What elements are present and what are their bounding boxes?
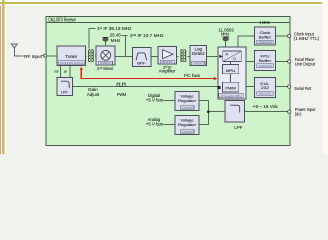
log detector U3 [190,45,207,65]
A/D converter [223,51,242,61]
wire power input [244,111,288,113]
PWM square wave symbol [117,83,125,86]
svg-text:D: D [233,57,236,61]
svg-text:+9 – 15 Vdc: +9 – 15 Vdc [253,104,279,109]
svg-text:BPF: BPF [137,61,146,66]
wire crystal X1 to mixer [104,41,106,46]
svg-text:PWM: PWM [225,86,236,91]
svg-text:I²C bus: I²C bus [184,73,201,78]
svg-text:MHz: MHz [111,38,121,43]
antenna [12,44,24,56]
svg-text:Regulator: Regulator [178,98,197,103]
wire tuner to transformer [86,55,87,57]
svg-text:Buffer: Buffer [259,34,272,39]
svg-text:+5 V bus: +5 V bus [146,98,164,103]
wire power node to LPF [208,111,225,113]
svg-text:1st IF 36.13 MHz: 1st IF 36.13 MHz [97,26,132,31]
svg-text:RF: RF [54,70,59,74]
terminal power input [288,110,291,113]
amplifier 2nd IF [158,46,176,64]
svg-text:MHz: MHz [221,32,229,37]
wire crystal X2 to MPU box [225,41,227,47]
PWM unit [223,82,239,92]
svg-text:AD8307: AD8307 [193,62,204,66]
svg-text:Gain: Gain [88,87,99,92]
wire MPU to PWM [230,74,232,83]
wire log detector to A/D (arrow) [207,55,220,57]
arrowhead I2C to tuner [80,67,83,70]
terminal RF input [44,54,47,57]
part number ATmega16 [219,93,243,98]
green panel CALLISTO Receiver [46,16,290,145]
svg-text:MPU: MPU [226,68,236,73]
wire PWM gain adjust to LPF [73,85,218,87]
FPU buffer [255,51,276,71]
wire MPU to EIA-232 [246,86,255,88]
svg-text:CALLISTO Receiver: CALLISTO Receiver [48,17,76,23]
panel title separator [46,22,290,24]
svg-text:232: 232 [261,85,270,90]
clock buffer [255,27,276,45]
LPF power input filter [225,100,244,122]
I2C bus red line [81,69,215,79]
wire mixer to BPF [115,55,132,57]
svg-text:Amplifier: Amplifier [159,69,176,74]
svg-text:Serial Port: Serial Port [294,86,312,91]
svg-text:74HC244: 74HC244 [258,64,272,68]
wire clock buffer output [276,35,289,37]
wire tuner RF AGC stub [60,66,62,78]
svg-text:PWM: PWM [117,92,127,97]
svg-text:(dc): (dc) [295,111,302,116]
leader line 1st IF label [89,29,96,49]
tuner block [57,46,86,65]
wire amplifier to transformer T2 [176,55,178,57]
svg-text:ATmega16 MPU: ATmega16 MPU [220,94,241,98]
wire regulators to power node (elbows) [199,100,208,124]
wire EIA-232 output [276,86,289,88]
svg-text:+5 V bus: +5 V bus [146,122,164,127]
node power junction [207,110,210,113]
wire tuner IF AGC stub [69,66,71,78]
mixer U2 [96,46,115,65]
svg-text:SA602A: SA602A [100,61,111,65]
svg-text:25.43: 25.43 [110,33,121,38]
svg-text:Regulator: Regulator [178,122,197,127]
svg-text:Unit Output: Unit Output [295,62,316,67]
terminal FPU output [288,60,291,63]
svg-text:Tuner: Tuner [65,54,78,59]
svg-text:MAX232: MAX232 [259,92,271,96]
wire A/D to MPU [230,62,232,65]
svg-text:BF199: BF199 [162,60,172,64]
node PWM output square [217,86,220,89]
svg-text:LPF: LPF [61,90,69,95]
crystal X2 11.0592 MHz [218,27,234,40]
svg-text:74HC244: 74HC244 [258,40,272,44]
arrowhead I2C to MPU [214,77,218,80]
wire digital bus to regulator U4 [164,99,175,101]
svg-text:Adjust: Adjust [87,92,100,97]
voltage regulator digital [175,92,199,111]
wire transformer T2 to log detector [187,55,190,57]
svg-text:Buffer: Buffer [259,58,272,63]
svg-text:(1 MHz TTL): (1 MHz TTL) [294,36,320,41]
wire transformer to mixer [95,55,96,57]
transformer T1 [88,49,93,62]
LPF gain adjust [57,78,72,96]
svg-text:LM7805: LM7805 [182,106,193,110]
wire RF input to tuner [47,55,57,57]
transformer T2 [181,49,186,62]
terminal clock output [288,34,291,37]
MPU group box ATmega16 [218,47,246,99]
wire analog bus to regulator U5 [164,123,175,125]
svg-text:CD1316LS/IV-3: CD1316LS/IV-3 [60,61,83,65]
wire RF input stub [42,55,44,57]
svg-text:LM7805: LM7805 [182,130,193,134]
svg-text:1 MHz: 1 MHz [259,20,269,25]
wire MPU to FPU buffer [246,61,255,63]
EIA-232 driver [255,78,276,98]
voltage regulator analog [175,116,199,135]
wire MPU to clock buffer (elbow) [238,36,255,47]
terminal serial port [288,85,291,88]
svg-text:RF Input: RF Input [24,54,43,59]
crystal X1 25.43 MHz [103,38,109,42]
svg-text:Detect: Detect [192,51,205,56]
MPU core [223,65,239,74]
BPF filter block [132,48,151,67]
arrowhead log detect to A/D [219,55,222,58]
svg-text:LPF: LPF [234,125,242,130]
leader line 2nd IF label [122,34,128,36]
wire FPU buffer output [276,61,289,63]
wire BPF to amplifier [151,55,158,57]
